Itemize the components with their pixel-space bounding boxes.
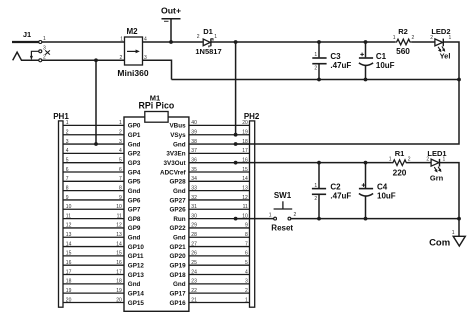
wire M1 pin 32 to PH2 pin 12 [189,199,250,201]
wire M1 pin 31 to PH2 pin 11 [189,208,250,210]
wire PH1 pin 15 to M1 pin 15 [63,255,124,257]
svg-text:VBus: VBus [169,123,186,130]
ground Com [429,230,465,249]
svg-text:GP5: GP5 [128,179,141,186]
svg-text:ADCVref: ADCVref [160,169,186,176]
wire 3V3Out rail to R1 [236,162,392,164]
wire down to ground symbol [458,219,460,237]
svg-text:GP4: GP4 [128,169,141,176]
svg-text:D1: D1 [203,27,213,36]
svg-text:.47uF: .47uF [330,192,351,201]
capacitor C4 10uF (electrolytic) [359,163,396,219]
svg-text:2: 2 [197,34,200,40]
svg-text:2: 2 [412,35,415,41]
wire PH1 pin 18 to M1 pin 18 [63,283,124,285]
svg-text:GP8: GP8 [128,216,141,223]
wire PH1 pin 19 to M1 pin 19 [63,292,124,294]
svg-text:GP1: GP1 [128,132,141,139]
wire M1 pin 35 to PH2 pin 15 [189,171,250,173]
svg-text:GP10: GP10 [128,244,145,251]
wire M1 pin 27 to PH2 pin 7 [189,246,250,248]
svg-text:Gnd: Gnd [128,141,141,148]
svg-text:GP2: GP2 [128,151,141,158]
junction Run tap [234,217,238,221]
connector J1 (DC barrel jack) [12,30,50,62]
svg-text:Com: Com [429,237,450,248]
power flag Out+ [161,5,181,42]
svg-text:GP7: GP7 [128,207,141,214]
svg-text:Yel: Yel [440,52,451,61]
svg-text:GP21: GP21 [169,244,186,251]
wire PH1 pin 3 to M1 pin 3 [63,143,124,145]
svg-text:Gnd: Gnd [173,141,186,148]
module M2 Mini360 buck converter [117,27,148,78]
svg-text:GP9: GP9 [128,225,141,232]
wire J1 pin2 to M2 pin2 [42,59,125,61]
svg-text:Gnd: Gnd [128,188,141,195]
resistor R1 220 [389,149,411,178]
wire Run to SW1 pin1 [236,218,274,220]
wire M1 pin 26 to PH2 pin 6 [189,255,250,257]
svg-text:.47uF: .47uF [330,61,351,70]
junction C4 bottom [364,217,368,221]
svg-text:Grn: Grn [430,174,444,183]
svg-text:GP20: GP20 [169,253,186,260]
svg-text:C4: C4 [377,183,388,192]
wire 5V down to VSys pin [235,42,237,135]
wire M1 pin 23 to PH2 pin 3 [189,283,250,285]
LED2 yellow [430,27,451,61]
svg-text:C1: C1 [376,52,387,61]
junction at VSys row [234,133,238,137]
wire M1 pin 33 to PH2 pin 13 [189,190,250,192]
svg-text:GP13: GP13 [128,272,145,279]
junction ground at Com [457,217,461,221]
svg-text:3V3Out: 3V3Out [164,160,187,167]
module M1 RPi Pico [116,93,197,311]
capacitor C1 10uF (electrolytic) [359,42,395,80]
wire M1 pin 28 to PH2 pin 8 [189,236,250,238]
header PH2 [242,112,260,307]
svg-text:C2: C2 [330,183,341,192]
svg-text:GP27: GP27 [169,197,186,204]
svg-text:3V3En: 3V3En [166,151,185,158]
wire M1 pin 30 to PH2 pin 10 [189,218,250,220]
svg-text:1: 1 [314,183,317,189]
svg-text:J1: J1 [23,30,31,39]
wire LED2 cathode to right edge down [443,42,459,80]
svg-text:1: 1 [314,52,317,58]
svg-text:1: 1 [393,35,396,41]
wire PH1 pin 7 to M1 pin 7 [63,180,124,182]
svg-text:2: 2 [294,212,297,218]
svg-text:1: 1 [443,156,446,162]
svg-text:1N5817: 1N5817 [195,47,221,56]
svg-text:GP3: GP3 [128,160,141,167]
wire PH1 pin 9 to M1 pin 9 [63,199,124,201]
junction 3V3Out tap [234,161,238,165]
junction C1 top [364,40,368,44]
svg-text:220: 220 [393,167,407,177]
svg-text:2: 2 [426,156,429,162]
switch SW1 Reset [269,191,297,233]
svg-text:GP17: GP17 [169,290,186,297]
svg-text:1: 1 [214,34,217,40]
wire PH1 pin 17 to M1 pin 17 [63,274,124,276]
wire PH1 pin 16 to M1 pin 16 [63,264,124,266]
svg-text:R1: R1 [395,149,405,158]
svg-text:GP16: GP16 [169,300,186,307]
junction at Gnd row tap [234,142,238,146]
svg-text:GP19: GP19 [169,263,186,270]
wire PH1 pin 2 to M1 pin 2 [63,134,124,136]
capacitor C3 .47uF [312,42,351,80]
svg-text:GP11: GP11 [128,253,144,260]
svg-text:GP0: GP0 [128,123,141,130]
wire M1 pin 40 to PH2 pin 20 [189,124,250,126]
svg-text:GP12: GP12 [128,263,145,270]
svg-text:1: 1 [269,213,272,219]
wire M2 pin4 to D1 anode [143,41,203,43]
junction C3 top [317,40,321,44]
svg-text:GP28: GP28 [169,179,186,186]
wire PH1 pin 11 to M1 pin 11 [63,218,124,220]
svg-text:Out+: Out+ [161,5,181,15]
wire M1 pin 29 to PH2 pin 9 [189,227,250,229]
svg-text:Mini360: Mini360 [117,68,148,78]
svg-text:M2: M2 [126,27,138,36]
svg-text:560: 560 [396,46,410,56]
LED1 green [426,149,446,183]
wire R2 to LED2 [411,41,435,43]
svg-text:2: 2 [120,55,123,61]
junction C1 bottom [364,78,368,82]
junction C2 top [317,161,321,165]
svg-text:1: 1 [452,230,455,236]
wire M1 pin 37 to PH2 pin 17 [189,152,250,154]
svg-text:RPi Pico: RPi Pico [139,101,175,111]
wire J1 pin1 to M2 pin1 [42,41,125,43]
svg-text:GP18: GP18 [169,272,186,279]
svg-text:GP15: GP15 [128,300,145,307]
wire PH1 pin 4 to M1 pin 4 [63,152,124,154]
svg-text:GP6: GP6 [128,197,141,204]
svg-text:1: 1 [389,156,392,162]
junction C4 top [364,161,368,165]
svg-text:Gnd: Gnd [173,188,186,195]
diode D1 1N5817 (Schottky) [195,27,221,56]
wire input ground down to Pico Gnd pin [95,60,97,144]
svg-text:VSys: VSys [170,132,186,139]
wire PH1 pin 10 to M1 pin 10 [63,208,124,210]
svg-text:R2: R2 [398,27,408,36]
svg-text:Gnd: Gnd [173,235,186,242]
wire right edge down to Gnd row [236,80,459,145]
wire PH1 pin 12 to M1 pin 12 [63,227,124,229]
wire PH1 pin 1 to M1 pin 1 [63,124,124,126]
wire PH1 pin 20 to M1 pin 20 [63,301,124,303]
svg-text:1: 1 [449,35,452,41]
svg-text:10uF: 10uF [376,61,395,70]
wire M1 pin 39 to PH2 pin 19 [189,134,250,136]
svg-text:2: 2 [430,35,433,41]
svg-text:SW1: SW1 [274,191,292,200]
wire PH1 pin 13 to M1 pin 13 [63,236,124,238]
svg-text:Gnd: Gnd [128,281,141,288]
svg-text:2: 2 [314,196,317,202]
svg-text:10uF: 10uF [377,192,396,201]
junction Out+ tap [169,40,173,44]
svg-text:GP14: GP14 [128,290,145,297]
wire PH1 pin 5 to M1 pin 5 [63,162,124,164]
wire LED1 cathode to ground [440,163,459,219]
wire PH1 pin 14 to M1 pin 14 [63,246,124,248]
wire M1 pin 38 to PH2 pin 18 [189,143,250,145]
wire M1 pin 34 to PH2 pin 14 [189,180,250,182]
wire M1 pin 24 to PH2 pin 4 [189,274,250,276]
wire D1 cathode to R2 (5V rail) [210,41,395,43]
wire R1 to LED1 [408,162,432,164]
resistor R2 560 [393,27,415,56]
svg-text:2: 2 [314,66,317,72]
svg-text:C3: C3 [330,52,341,61]
svg-text:1: 1 [120,36,123,42]
svg-text:Gnd: Gnd [173,281,186,288]
junction at PH1 Gnd row [94,142,98,146]
header PH1 [53,112,71,307]
svg-text:2: 2 [408,156,411,162]
svg-text:GP22: GP22 [169,225,186,232]
junction C2 bottom [317,217,321,221]
wire M1 pin 25 to PH2 pin 5 [189,264,250,266]
wire PH1 pin 8 to M1 pin 8 [63,190,124,192]
junction C3 bottom [317,78,321,82]
wire PH1 pin 6 to M1 pin 6 [63,171,124,173]
svg-text:Reset: Reset [271,224,293,233]
wire M1 pin 21 to PH2 pin 1 [189,301,250,303]
svg-text:Gnd: Gnd [128,235,141,242]
svg-text:Run: Run [173,216,185,223]
junction input ground tap [94,58,98,62]
wire M1 pin 22 to PH2 pin 2 [189,292,250,294]
capacitor C2 .47uF [312,163,352,219]
wire M1 pin 36 to PH2 pin 16 [189,162,250,164]
junction D1 output node [234,40,238,44]
junction ground rail right edge [457,78,461,82]
wire output ground rail [172,79,460,81]
wire M2 pin3 to output ground rail [143,60,172,79]
wire SW1 pin2 to ground rail [291,218,459,220]
svg-text:GP26: GP26 [169,207,186,214]
